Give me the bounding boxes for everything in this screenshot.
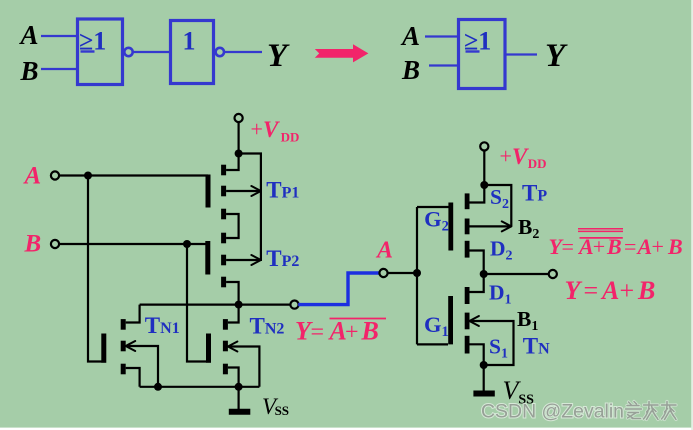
svg-text:DD: DD: [528, 156, 547, 171]
svg-text:B: B: [637, 276, 655, 305]
svg-text:V: V: [512, 144, 529, 169]
svg-text:=: =: [562, 234, 574, 259]
svg-text:=: =: [624, 234, 636, 259]
svg-text:1: 1: [183, 27, 196, 56]
svg-text:+: +: [345, 320, 359, 346]
svg-text:A: A: [328, 317, 347, 346]
svg-text:DD: DD: [281, 129, 300, 144]
svg-text:B: B: [667, 234, 683, 259]
svg-text:A: A: [23, 163, 42, 190]
svg-text:Y: Y: [545, 38, 568, 74]
svg-text:+: +: [500, 144, 512, 169]
svg-text:B: B: [401, 55, 420, 85]
svg-text:≥1: ≥1: [464, 27, 491, 56]
svg-text:CSDN @Zevalin: CSDN @Zevalin: [481, 401, 624, 423]
svg-text:≥1: ≥1: [79, 27, 106, 56]
svg-text:=: =: [311, 320, 325, 346]
svg-text:A: A: [636, 234, 653, 259]
svg-text:+: +: [620, 276, 635, 305]
svg-text:A: A: [400, 21, 420, 51]
svg-text:A: A: [375, 238, 393, 264]
svg-text:B: B: [20, 56, 39, 86]
svg-text:A: A: [600, 276, 619, 305]
svg-text:Y: Y: [565, 276, 583, 305]
svg-text:A: A: [19, 20, 39, 50]
svg-text:+: +: [652, 234, 664, 259]
svg-text:B: B: [361, 317, 379, 346]
svg-text:=: =: [584, 276, 599, 305]
svg-text:B: B: [24, 231, 42, 258]
svg-text:V: V: [263, 117, 280, 142]
svg-text:+: +: [251, 117, 263, 142]
svg-text:Y: Y: [267, 38, 290, 74]
